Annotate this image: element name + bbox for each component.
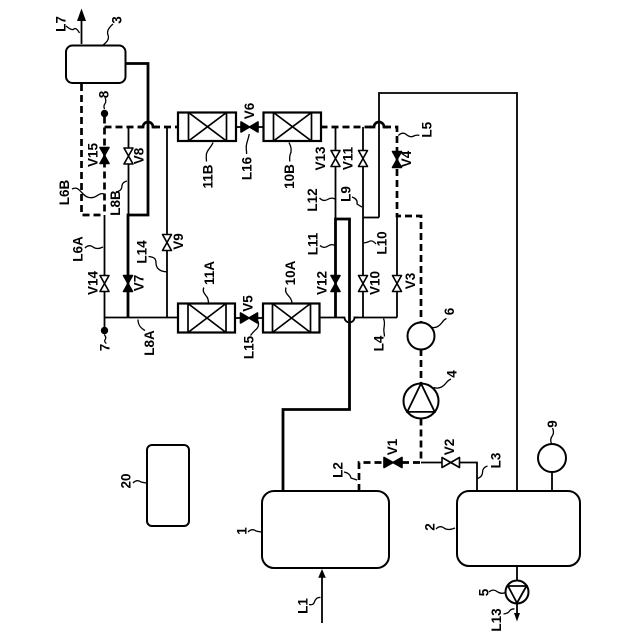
heat exchanger 10A [263,304,320,333]
label L12 [305,188,335,211]
wire L7: arrow out of tank 3 [81,20,83,44]
wire: thick pipe U-turn L11/L4 from row A up through V12, over, down to tank 1 [283,219,350,491]
svg-text:10A: 10A [283,260,298,285]
wire L8B: V8 branch line [128,127,130,215]
svg-text:7: 7 [97,344,112,352]
svg-text:1: 1 [235,527,250,535]
label 11A [202,261,217,304]
svg-text:2: 2 [423,523,438,531]
wire L6A: solid line through V14 [104,215,106,318]
label L1 [296,597,321,613]
label 4 [434,370,460,388]
label L15 [242,321,259,359]
wire: stub down to node 7 [104,318,106,328]
wire: V5 to 10A lead [258,317,264,319]
tank 1 [262,491,389,568]
valve V2 [442,458,460,468]
svg-text:L4: L4 [372,335,387,351]
label L4 [372,319,387,352]
heat exchanger 11A [178,304,235,333]
svg-text:V11: V11 [341,146,356,170]
svg-text:20: 20 [119,473,134,488]
label L3 [478,452,504,478]
svg-text:L1: L1 [296,598,311,614]
svg-text:V3: V3 [403,272,418,289]
svg-text:L5: L5 [420,121,435,137]
valve V3 [393,276,402,292]
svg-text:11B: 11B [201,164,216,188]
pump 5 [506,581,529,604]
tank 3 [66,46,126,84]
svg-text:6: 6 [442,307,457,315]
svg-text:V7: V7 [132,275,147,292]
svg-text:3: 3 [110,16,125,24]
node 8 [101,110,108,117]
sensor 9 [538,444,566,472]
svg-text:L6A: L6A [71,236,86,262]
svg-text:V2: V2 [442,439,457,456]
label 1 [235,527,262,535]
flow meter 6 [408,323,435,350]
svg-text:V13: V13 [313,146,328,171]
svg-text:L3: L3 [489,452,504,468]
label L9 [339,186,363,207]
label 10B [282,143,297,189]
wire L14: line through V9 [166,127,168,318]
label 3 [103,16,125,45]
svg-text:V4: V4 [399,150,414,167]
wire L2: dashed from tank 1 top through V1 [359,463,384,492]
label L2 [331,462,358,480]
label L13 [489,608,515,632]
svg-text:V6: V6 [242,102,257,119]
svg-text:L13: L13 [489,608,504,632]
label 9 [545,420,560,443]
valve V5 (closed) [241,313,258,323]
hop under thick pipe on row A [341,318,358,323]
label L10 [364,231,390,254]
wire: branch from L9 column to loop [363,217,379,219]
svg-text:L8B: L8B [108,190,123,216]
wire L13: arrow out of pump 5 [516,603,518,614]
label L11 [306,232,336,255]
valve V10 [359,276,368,292]
heat exchanger 10B [264,113,322,142]
heat exchanger 11B [178,113,236,142]
svg-text:V5: V5 [240,295,255,312]
label 11B [201,143,216,189]
hop over thick pipe [139,122,157,127]
svg-text:L12: L12 [305,188,320,211]
wire: big loop over the top right into tank 2 [379,93,517,491]
svg-text:V1: V1 [385,438,400,455]
wire: tank 2 bottom to pump 5 [516,566,518,581]
svg-text:10B: 10B [282,164,297,189]
svg-text:L2: L2 [331,462,346,478]
valve V14 [100,276,109,292]
svg-text:L14: L14 [135,240,150,264]
label L6A [71,236,104,262]
svg-text:8: 8 [97,90,112,98]
valve V6 (closed) [241,122,258,132]
label L5 [398,121,434,137]
svg-text:L6B: L6B [57,180,72,206]
wire L8B header: dashed horizontal to 11B with hop over thick pipe [105,126,144,129]
wire: V3 column solid segment [396,216,398,318]
wire: row A horizontal left to 11A [105,317,179,319]
label 10A [283,260,298,303]
wire: V2 to tank 2 via L3 [421,463,477,492]
wire: thick pipe from tank 3 right side down to valve V7 and row A [125,64,148,318]
svg-text:9: 9 [545,420,560,428]
valve V8 [124,148,133,164]
valve V1 (closed) [384,458,402,468]
svg-text:L10: L10 [375,231,390,254]
valve V13 [331,151,340,167]
tank 2 [457,491,580,566]
node 7 [101,327,108,334]
label 8 [97,90,112,109]
label L8B [108,181,127,216]
svg-text:V8: V8 [132,147,147,164]
wire: row A horizontal continues to V3 column [354,317,398,319]
valve V15 (closed) [100,148,109,164]
valve V4 (closed) [393,152,402,168]
label 2 [423,523,456,531]
wire: row A horizontal right from 10A [320,317,344,319]
box 20 [147,445,189,526]
svg-text:V9: V9 [171,233,186,250]
wire: dashed between V1 and junction [402,461,421,464]
label L6B [57,180,104,206]
wire: meter 9 lead to tank 2 [551,472,553,491]
valve V12 (closed) [331,276,340,292]
wire L9/L10: column through V11 and V10 [362,127,364,318]
wire: dashed from meter 6 to pump 4 [420,349,423,384]
svg-text:L15: L15 [242,335,257,359]
wire L5: dashed from 10B right with hop over loop line [321,126,375,129]
valve V7 (closed) [124,276,133,292]
svg-text:L16: L16 [239,156,254,180]
label L16 [239,134,254,180]
svg-text:11A: 11A [202,261,217,285]
label 6 [431,307,458,327]
svg-text:L7: L7 [54,16,69,32]
wire: dashed from pump 4 down to V1 header [420,419,423,463]
svg-text:4: 4 [445,370,460,378]
svg-text:L11: L11 [306,232,321,255]
wire L12: column through V13 [335,127,337,218]
label 20 [119,473,147,488]
wire: 11A to V5 lead [235,317,241,319]
label L14 [135,240,167,272]
svg-text:V15: V15 [86,143,101,168]
svg-text:L8A: L8A [142,330,157,356]
pump 4 [404,384,439,419]
wire: dashed node-8 line through V15 down to junction [103,117,106,216]
wire L1: arrow into tank 1 bottom [321,576,323,623]
label 5 [477,588,506,596]
hop over loop line [370,122,388,127]
svg-text:L9: L9 [339,186,354,202]
svg-text:V14: V14 [86,271,101,296]
svg-text:V10: V10 [368,271,383,295]
wire L6B: dashed from tank 3 bottom down and right to L6A junction [82,84,105,215]
wire: V6 to 10B lead [258,126,264,128]
svg-text:V12: V12 [315,271,330,295]
wire: dashed continuation to 11B [153,126,178,129]
wire: dashed corner to V4 column [384,127,421,323]
label L7 [54,16,80,33]
label L8A [138,320,157,356]
valve V9 [163,235,172,251]
label 7 [97,335,112,352]
valve V11 [359,151,368,167]
wire: 11B to V6 lead [235,126,241,128]
